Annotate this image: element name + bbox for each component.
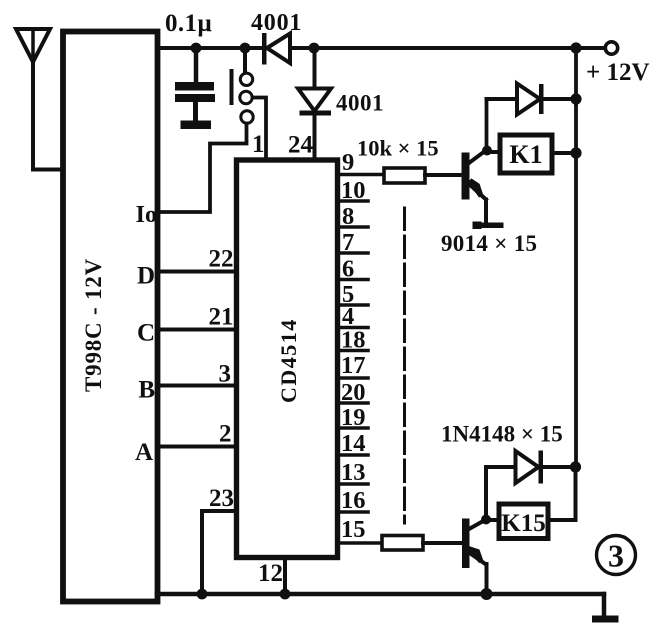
junction node Q1 collector [482,146,492,156]
top +12V wire [157,46,604,50]
+12V terminal [605,42,617,54]
pin 13 stub + label [338,482,368,486]
diode D2 4001 vertical [298,48,331,160]
transistor Q1 9014 [462,99,488,223]
wire pin 12 to ground rail [283,559,287,594]
pin 7 stub + label [338,251,368,255]
wire switch middle contact to pin 1 [253,98,267,161]
bottom ground wire [157,592,604,596]
svg-text:4001: 4001 [251,10,302,36]
svg-text:19: 19 [341,404,366,431]
ground under Q1 [473,222,504,230]
svg-text:3: 3 [608,538,624,574]
svg-text:CD4514: CD4514 [276,318,301,403]
svg-text:15: 15 [341,516,366,543]
wire switch bottom contact to Io [157,124,247,213]
svg-text:K15: K15 [501,510,545,537]
svg-text:1: 1 [252,131,265,158]
junction node Q15 collector [481,515,491,525]
pin 9 stub + label [338,173,384,177]
relay K15 [499,504,548,539]
wire D to pin 22 [157,270,237,274]
svg-text:18: 18 [341,327,366,354]
pin 8 stub + label [338,225,368,229]
svg-text:8: 8 [342,203,354,230]
junction dot cap [191,43,202,54]
wire antenna to receiver block [33,62,63,170]
switch S1 [230,48,254,123]
svg-text:20: 20 [341,379,366,406]
pin 17 stub + label [338,376,368,380]
junction dot Q15 emitter on ground rail [481,588,493,600]
wire Q1 collector to K1 [487,150,500,154]
svg-text:13: 13 [341,459,366,486]
svg-text:Io: Io [136,202,157,228]
junction dot D3 rail [570,93,581,104]
pin 4 stub + label [338,326,368,330]
svg-text:23: 23 [209,485,234,512]
svg-text:0.1μ: 0.1μ [165,10,212,37]
svg-text:12: 12 [258,560,283,587]
pin 14 stub + label [338,453,368,457]
junction dot 23 [197,589,208,600]
junction dot +12V rail [570,42,581,53]
svg-text:24: 24 [288,132,314,159]
svg-text:C: C [137,320,155,347]
dashed continuation line [403,208,406,523]
figure number 3 [597,536,636,575]
wire C to pin 21 [157,328,237,332]
wire pin 15 to R15; resistor R15 [338,536,462,551]
wire rail to K15 [548,467,576,520]
svg-text:9: 9 [342,149,354,176]
svg-text:16: 16 [341,487,366,514]
ground symbol bottom right [592,594,619,623]
wire B to pin 3 [157,384,237,388]
pin 18 stub + label [338,349,368,353]
pin 16 stub + label [338,510,368,514]
svg-text:7: 7 [342,229,354,256]
junction dot switch [240,43,251,54]
svg-text:A: A [135,439,153,466]
svg-text:4001: 4001 [336,91,384,116]
junction dot 12 [280,589,291,600]
wire pin 9 to R1 done above; resistor R1 10k [384,168,462,183]
svg-text:6: 6 [342,256,354,283]
junction dot D4 rail [570,461,581,472]
wire A to pin 2 [157,445,237,449]
wire K15 to Q15 collector [486,518,499,522]
pin 10 stub + label [338,199,368,203]
svg-text:17: 17 [341,352,366,379]
wire K1 to rail [552,151,576,155]
svg-text:21: 21 [209,304,234,331]
svg-text:3: 3 [219,361,232,388]
svg-text:B: B [138,377,155,404]
svg-text:22: 22 [209,246,234,273]
transistor Q15 9014 [462,519,487,595]
IC U1 CD4514 [237,160,338,558]
capacitor C1 0.1u [175,48,215,129]
svg-text:14: 14 [341,430,366,457]
receiver block T998C-12V [63,32,158,602]
svg-text:T998C - 12V: T998C - 12V [81,258,106,392]
diode D1 4001 top [262,33,290,65]
junction dot diode D2 [309,43,320,54]
svg-text:D: D [137,263,155,290]
svg-text:9014 × 15: 9014 × 15 [441,231,537,256]
relay K1 [500,135,552,173]
wire pin 23 to ground rail [202,511,237,594]
svg-text:2: 2 [219,421,232,448]
svg-text:+ 12V: + 12V [586,59,650,86]
junction dot K1 rail [570,147,581,158]
+12V rail vertical [574,48,578,467]
svg-text:K1: K1 [509,140,542,169]
svg-text:10k × 15: 10k × 15 [357,136,439,161]
pin 5 stub + label [338,303,368,307]
svg-text:10: 10 [341,177,366,204]
pin 6 stub + label [338,278,368,282]
antenna [16,29,50,62]
pin 20 stub + label [338,401,368,405]
svg-text:1N4148 × 15: 1N4148 × 15 [441,422,563,447]
diode D4 1N4148 bottom [486,451,576,520]
pin 19 stub + label [338,426,368,430]
diode D3 1N4148 top [487,84,577,115]
